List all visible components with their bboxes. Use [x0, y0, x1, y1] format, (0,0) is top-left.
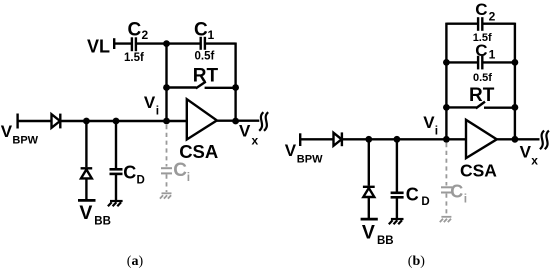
svg-text:BPW: BPW — [12, 135, 38, 147]
svg-text:0.5f: 0.5f — [473, 72, 492, 84]
svg-text:(a): (a) — [127, 254, 144, 269]
svg-text:BB: BB — [377, 235, 394, 247]
svg-text:i: i — [187, 170, 190, 184]
svg-text:V: V — [239, 122, 251, 141]
svg-text:i: i — [156, 104, 159, 118]
svg-text:BPW: BPW — [297, 153, 323, 165]
svg-text:D: D — [137, 174, 145, 186]
svg-text:2: 2 — [142, 28, 149, 42]
svg-text:0.5f: 0.5f — [195, 51, 215, 63]
svg-text:(b): (b) — [408, 254, 425, 269]
svg-text:x: x — [531, 153, 538, 167]
svg-text:C: C — [128, 19, 142, 40]
svg-text:2: 2 — [489, 9, 496, 23]
svg-text:BB: BB — [94, 216, 111, 228]
svg-text:C: C — [123, 162, 136, 182]
svg-text:CSA: CSA — [460, 161, 497, 181]
svg-text:CSA: CSA — [179, 141, 218, 162]
svg-text:x: x — [252, 133, 259, 147]
svg-text:C: C — [450, 181, 463, 201]
svg-text:RT: RT — [193, 65, 219, 86]
svg-text:C: C — [173, 160, 187, 181]
svg-text:V: V — [285, 141, 297, 160]
svg-text:D: D — [421, 196, 429, 208]
svg-text:V: V — [144, 93, 156, 112]
svg-text:C: C — [475, 0, 487, 19]
svg-text:VL: VL — [87, 37, 110, 57]
svg-text:i: i — [435, 124, 438, 138]
svg-text:V: V — [79, 202, 92, 224]
svg-text:V: V — [423, 113, 435, 132]
svg-text:C: C — [406, 184, 419, 204]
svg-text:i: i — [464, 191, 467, 205]
svg-text:1.5f: 1.5f — [124, 52, 144, 64]
svg-text:V: V — [1, 122, 13, 141]
svg-text:V: V — [520, 142, 532, 161]
svg-text:RT: RT — [469, 85, 495, 106]
svg-text:V: V — [362, 222, 375, 244]
svg-text:1: 1 — [208, 28, 215, 42]
svg-text:1: 1 — [489, 48, 496, 62]
svg-text:C: C — [194, 19, 208, 40]
svg-text:C: C — [475, 41, 487, 60]
